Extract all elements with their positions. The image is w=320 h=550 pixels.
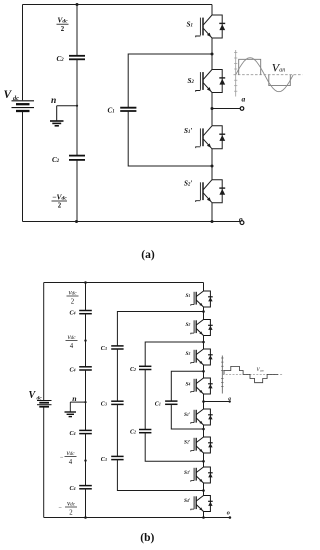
wire S1-S2 (b) xyxy=(203,307,205,320)
capacitor C4 no.3 (b) xyxy=(79,429,92,431)
svg-text:−: − xyxy=(59,505,63,511)
transistor S4 (b) xyxy=(191,378,213,394)
transistor S1p (b) xyxy=(191,409,213,425)
transistor S1 (a) xyxy=(196,15,226,38)
svg-text:V: V xyxy=(29,390,37,401)
wire node a output (a) xyxy=(212,108,240,110)
waveform sine (a) xyxy=(236,58,294,92)
wire dc-link rail segment 2 (a) xyxy=(76,59,78,155)
capacitor C3 no.3 (b) xyxy=(111,455,123,457)
wire S3p-S4p (b) xyxy=(203,483,205,496)
svg-text:S3′: S3′ xyxy=(184,470,191,476)
wire bottom rail (a) xyxy=(23,221,241,223)
svg-text:S1′: S1′ xyxy=(184,412,191,418)
capacitor C2 upper (a) xyxy=(69,55,85,57)
wire dc-link rail segment 3 (b) xyxy=(85,370,87,430)
svg-text:n: n xyxy=(51,96,56,106)
wire C3 column mid 2 (b) xyxy=(116,404,118,456)
node junction -vdc/4 (b) xyxy=(84,459,86,461)
svg-text:S3: S3 xyxy=(186,351,191,357)
wire flying C1 bottom link (b) xyxy=(171,404,203,429)
svg-text:S2′: S2′ xyxy=(184,440,191,446)
capacitor C4 no.1 (b) xyxy=(79,310,92,312)
svg-text:vdc: vdc xyxy=(66,449,75,457)
transistor S3 (b) xyxy=(191,349,213,365)
wire S1p-S2p (a) xyxy=(211,149,213,180)
svg-text:dc: dc xyxy=(37,396,43,402)
svg-text:vdc: vdc xyxy=(67,333,76,341)
node a junction (b) xyxy=(202,400,205,403)
wire flying C2 top link (b) xyxy=(145,342,203,366)
battery Vdc (a) xyxy=(12,101,35,111)
terminal a (a) xyxy=(240,107,244,111)
node junction S1p-S2p (b) xyxy=(202,428,205,431)
transistor S2p (a) xyxy=(196,180,226,203)
svg-text:an: an xyxy=(279,68,285,74)
capacitor C3 no.1 (b) xyxy=(111,345,123,347)
ground (a) xyxy=(50,106,64,126)
svg-text:C3: C3 xyxy=(101,457,107,463)
wire flying-cap C1 top link (a) xyxy=(128,54,212,108)
node junction S2p-S3p (b) xyxy=(202,460,205,463)
wire left rail upper (a) xyxy=(22,5,24,101)
svg-text:dc: dc xyxy=(13,95,19,102)
wire top rail (b) xyxy=(44,282,204,284)
svg-text:4: 4 xyxy=(69,459,73,466)
terminal a (b) xyxy=(229,400,231,402)
waveform axes (a) xyxy=(234,50,303,97)
terminal o (a) xyxy=(240,221,244,225)
svg-text:C4: C4 xyxy=(70,310,76,316)
wire n to dc-link (a) xyxy=(57,105,77,107)
svg-text:2: 2 xyxy=(58,203,62,210)
svg-text:2: 2 xyxy=(69,509,73,516)
wire dc-link rail segment 1 (a) xyxy=(76,5,78,56)
svg-text:S1: S1 xyxy=(186,293,191,299)
wire dc-link rail segment 4 (b) xyxy=(85,434,87,486)
waveform staircase (b) xyxy=(224,366,278,382)
svg-text:C1: C1 xyxy=(108,106,115,114)
node junction bottom-rail / switch column (b) xyxy=(202,516,205,519)
wire S1-S2 (a) xyxy=(211,38,213,70)
capacitor C2 no.1 (b) xyxy=(139,365,151,367)
svg-text:S1: S1 xyxy=(187,21,193,29)
svg-text:−Vdc: −Vdc xyxy=(52,192,67,201)
svg-text:S4: S4 xyxy=(186,381,191,387)
node n junction (b) xyxy=(84,401,86,403)
node junction bottom-rail / switch column (a) xyxy=(211,220,214,223)
svg-text:V: V xyxy=(4,89,13,101)
svg-text:S4′: S4′ xyxy=(184,498,191,504)
wire S3-S4 (b) xyxy=(203,365,205,378)
waveform axis horizontal dashed (b) xyxy=(222,373,283,375)
wire node a output (b) xyxy=(204,401,230,403)
label -vdc/4 fraction (b) xyxy=(60,449,77,466)
wire S4-node a (b) xyxy=(203,394,205,409)
label vdc/4 fraction (b) xyxy=(66,333,78,350)
svg-text:2: 2 xyxy=(71,299,75,306)
node junction top-rail / dc-link (b) xyxy=(84,281,87,284)
svg-text:vdc: vdc xyxy=(67,499,76,507)
svg-text:C2: C2 xyxy=(130,367,136,373)
capacitor C4 no.4 (b) xyxy=(79,485,92,487)
wire dc-link rail segment 2 (b) xyxy=(85,314,87,367)
node junction bottom-rail / dc-link (b) xyxy=(84,516,87,519)
svg-text:o: o xyxy=(227,509,230,516)
svg-text:C3: C3 xyxy=(101,346,107,352)
node junction bottom-rail / dc-link (a) xyxy=(75,220,78,223)
svg-text:(a): (a) xyxy=(141,249,155,261)
wire left rail lower (b) xyxy=(43,408,45,518)
waveform axis vertical (b) xyxy=(221,356,223,394)
wire left rail lower (a) xyxy=(22,112,24,222)
label Vdc/2 fraction (a) xyxy=(57,15,69,33)
label vdc/2 fraction (b) xyxy=(67,289,79,306)
wire C3 column mid 1 (b) xyxy=(116,349,118,401)
capacitor C2 no.2 (b) xyxy=(139,429,151,431)
svg-text:C4: C4 xyxy=(70,486,76,492)
svg-text:Vdc: Vdc xyxy=(57,15,68,24)
svg-text:a: a xyxy=(242,94,246,103)
wire flying C2 bottom link (b) xyxy=(145,433,203,462)
transistor S2p (b) xyxy=(191,437,213,453)
wire switch column stub top (b) xyxy=(203,283,205,292)
wire S1p-S2p (b) xyxy=(203,425,205,437)
wire S2p-S3p (b) xyxy=(203,453,205,467)
capacitor C2 lower (a) xyxy=(69,155,85,157)
waveform axis ticks (b) xyxy=(221,358,224,387)
node n junction (a) xyxy=(76,105,78,107)
transistor S1p (a) xyxy=(196,126,226,149)
transistor S4p (b) xyxy=(191,496,213,512)
wire bottom rail (b) xyxy=(44,517,230,519)
svg-text:C4: C4 xyxy=(70,368,76,374)
svg-text:4: 4 xyxy=(70,343,74,350)
node junction S1-S2 (b) xyxy=(202,310,205,313)
svg-text:C3: C3 xyxy=(101,402,107,408)
node junction S1-S2 (a) xyxy=(211,53,214,56)
svg-text:n: n xyxy=(72,394,76,403)
capacitor C1 (b) xyxy=(165,400,177,402)
wire S2p-bottom (a) xyxy=(211,203,213,222)
node a junction (a) xyxy=(211,107,214,110)
svg-text:S1′: S1′ xyxy=(184,127,192,135)
node junction S3-S4 (b) xyxy=(202,370,205,373)
svg-text:S2′: S2′ xyxy=(184,179,192,187)
waveform square wave (a) xyxy=(239,59,291,85)
waveform axis ticks (a) xyxy=(234,53,237,92)
capacitor C1 (a) xyxy=(120,107,136,109)
label -Vdc/2 fraction (a) xyxy=(52,192,68,209)
node junction S2-S3 (b) xyxy=(202,341,205,344)
svg-text:C2: C2 xyxy=(130,430,136,436)
transistor S2 (a) xyxy=(196,70,226,93)
capacitor C4 no.2 (b) xyxy=(79,366,92,368)
node junction top-rail / dc-link (a) xyxy=(76,3,79,6)
svg-text:−: − xyxy=(60,455,64,461)
svg-text:C4: C4 xyxy=(70,431,76,437)
wire C2 column mid (b) xyxy=(144,370,146,430)
wire dc-link rail segment 5 (b) xyxy=(85,489,87,518)
ground (b) xyxy=(65,402,77,417)
wire flying C1 top link (b) xyxy=(171,371,203,401)
svg-text:C2: C2 xyxy=(57,55,65,63)
svg-text:an: an xyxy=(260,369,264,373)
svg-text:(b): (b) xyxy=(140,532,154,544)
svg-text:C2: C2 xyxy=(52,156,60,164)
label -vdc/2 fraction (b) xyxy=(59,499,78,516)
wire dc-link rail segment 3 (a) xyxy=(76,160,78,222)
transistor S3p (b) xyxy=(191,467,213,483)
wire flying-cap C1 bottom link (a) xyxy=(128,111,212,166)
transistor S2 (b) xyxy=(191,320,213,336)
battery Vdc (b) xyxy=(37,401,52,407)
capacitor C3 no.2 (b) xyxy=(111,400,123,402)
transistor S1 (b) xyxy=(191,291,213,307)
wire n to dc-link (b) xyxy=(70,401,85,403)
svg-text:o: o xyxy=(239,215,243,224)
wire switch column stub top (a) xyxy=(211,5,213,16)
svg-text:S2: S2 xyxy=(188,77,195,85)
wire S4p-bottom (b) xyxy=(203,512,205,518)
svg-text:2: 2 xyxy=(61,26,65,33)
wire S2-S3 (b) xyxy=(203,336,205,350)
svg-text:S2: S2 xyxy=(186,322,191,328)
svg-text:a: a xyxy=(228,396,231,402)
wire flying C3 top link (b) xyxy=(117,312,203,346)
wire left rail upper (b) xyxy=(43,283,45,401)
wire top rail (a) xyxy=(23,4,213,6)
svg-text:vdc: vdc xyxy=(68,289,77,297)
node junction vdc/4 (b) xyxy=(84,339,86,341)
node junction S1p-S2p (a) xyxy=(211,165,214,168)
wire dc-link rail segment 1 (b) xyxy=(85,283,87,311)
terminal o (b) xyxy=(229,516,232,519)
wire flying C3 bottom link (b) xyxy=(117,460,203,491)
wire S2-S1p (a) xyxy=(211,93,213,126)
svg-text:C1: C1 xyxy=(155,401,161,407)
node junction S3p-S4p (b) xyxy=(202,489,205,492)
